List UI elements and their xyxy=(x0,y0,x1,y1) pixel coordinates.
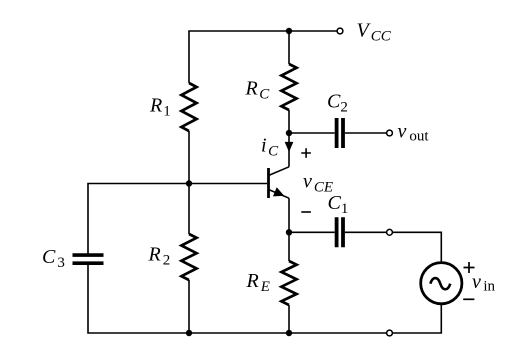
svg-text:R2: R2 xyxy=(148,244,171,269)
svg-text:VCC: VCC xyxy=(357,20,392,45)
capacitor C2 xyxy=(337,118,343,148)
junction node collector / C2 xyxy=(286,130,292,136)
capacitor C1 xyxy=(337,217,343,247)
terminal input top xyxy=(387,229,393,235)
svg-text:C2: C2 xyxy=(327,91,348,116)
wire vout row left xyxy=(289,132,335,134)
wire top rail from VCC terminal to R1 branch xyxy=(189,31,337,83)
label plus (vin) xyxy=(464,262,475,273)
svg-text:RC: RC xyxy=(245,78,271,103)
svg-text:C1: C1 xyxy=(328,192,349,217)
wire between R1 and R2 xyxy=(188,131,190,234)
wire emitter diagonal xyxy=(269,190,290,199)
junction node base / R1 R2 xyxy=(186,180,192,186)
svg-text:iC: iC xyxy=(261,135,279,160)
resistor R1 xyxy=(181,83,196,131)
resistor RE xyxy=(281,261,296,305)
label plus (vCE) xyxy=(301,148,311,158)
label minus (vin) xyxy=(463,298,474,300)
wire base row and C3 branch upper xyxy=(88,184,267,256)
junction node RE bottom xyxy=(286,330,292,336)
wire vout row right xyxy=(345,132,387,134)
svg-text:R1: R1 xyxy=(149,95,171,120)
svg-text:RE: RE xyxy=(246,270,270,295)
transistor Q1 emitter arrow xyxy=(274,188,284,196)
resistor RC xyxy=(281,64,296,110)
junction node at VCC rail / RC xyxy=(286,28,292,34)
wire collector diagonal xyxy=(269,167,290,176)
transistor Q1 base bar xyxy=(267,168,270,198)
resistor R2 xyxy=(181,234,196,280)
label minus (vCE) xyxy=(301,211,311,213)
terminal vout xyxy=(387,130,393,136)
terminal VCC xyxy=(337,28,343,34)
source vin sine xyxy=(430,278,450,289)
wire C3 branch lower and bottom rail left xyxy=(88,263,387,333)
source vin circle xyxy=(421,263,462,304)
wire RC branch top xyxy=(288,31,290,64)
current arrow iC xyxy=(285,142,292,150)
terminal input bottom xyxy=(387,330,393,336)
wire from input port to source top xyxy=(392,232,441,263)
capacitor C3 xyxy=(73,255,104,263)
wire emitter to RE xyxy=(288,198,290,261)
wire RE to bottom rail xyxy=(288,305,290,333)
svg-text:vout: vout xyxy=(398,120,430,144)
wire source bottom to input port xyxy=(392,304,441,333)
wire R2 to bottom rail xyxy=(188,280,190,333)
junction node R2 bottom xyxy=(186,330,192,336)
junction node emitter / C1 xyxy=(286,229,292,235)
wire C1 row right xyxy=(345,231,387,233)
svg-text:vin: vin xyxy=(472,271,496,295)
wire C1 row left xyxy=(289,231,335,233)
svg-text:C3: C3 xyxy=(42,246,65,271)
wire RC to collector xyxy=(288,110,290,167)
